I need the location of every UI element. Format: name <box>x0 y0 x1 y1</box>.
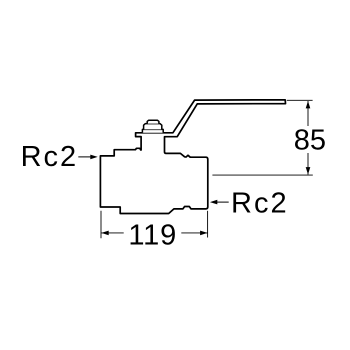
svg-text:Rc2: Rc2 <box>231 187 289 219</box>
svg-text:Rc2: Rc2 <box>21 141 79 173</box>
svg-text:119: 119 <box>128 219 177 251</box>
svg-text:85: 85 <box>294 125 326 157</box>
